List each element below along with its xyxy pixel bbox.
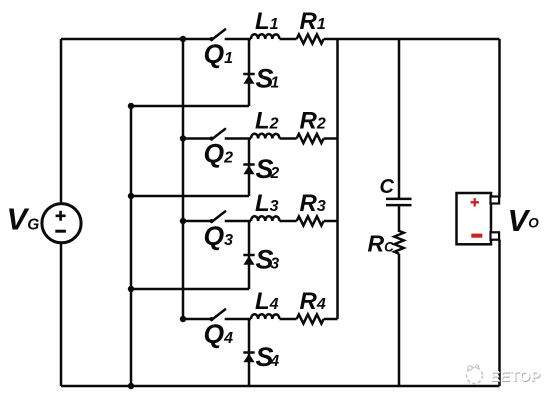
diode S4 — [243, 351, 254, 354]
wire resistor R2 to right bus — [324, 137, 338, 140]
node return 3 at left bus — [128, 286, 134, 292]
wire phase 3 from bus to switch — [183, 220, 212, 223]
wire phase 2 from bus to switch — [183, 137, 212, 140]
switch Q3 blade — [212, 211, 226, 222]
node return 2 at left bus — [128, 193, 134, 199]
inductor L4 — [251, 314, 279, 319]
resistor R2 — [297, 134, 324, 143]
wire switch to inductor L1 — [225, 38, 251, 41]
node phase 2 at main bus — [180, 135, 186, 141]
source VG plus sign — [56, 211, 66, 221]
switch Q4 blade — [212, 309, 226, 320]
wire RC to bottom rail — [398, 254, 401, 386]
load VO bottom tab — [491, 232, 500, 239]
wire bottom rail — [61, 385, 500, 388]
wire right collector bus — [336, 39, 339, 319]
svg-text:R3: R3 — [300, 190, 326, 217]
load VO plus sign — [471, 198, 479, 206]
svg-text:R1: R1 — [300, 8, 326, 35]
wire main switch bus — [182, 39, 185, 319]
diode S3 branch wire — [248, 221, 251, 289]
wire VO branch bottom — [498, 240, 501, 386]
inductor L1 — [251, 34, 279, 39]
wire left edge and source branch — [60, 39, 63, 386]
wire resistor R4 to right bus — [324, 318, 338, 321]
svg-text:R4: R4 — [300, 288, 326, 315]
svg-text:S3: S3 — [256, 245, 280, 275]
diode S2 — [243, 163, 254, 166]
wire capacitor to RC — [398, 206, 401, 232]
wire switch to inductor L4 — [225, 318, 251, 321]
inductor L2 — [251, 134, 279, 139]
svg-text:VO: VO — [508, 203, 540, 238]
load VO box — [457, 193, 492, 244]
resistor RC — [394, 231, 403, 254]
svg-text:Q2: Q2 — [204, 139, 234, 169]
svg-text:S2: S2 — [256, 154, 280, 184]
svg-text:S1: S1 — [256, 64, 280, 94]
wire resistor R3 to right bus — [324, 220, 338, 223]
resistor R3 — [297, 216, 324, 225]
svg-text:RC: RC — [368, 231, 395, 257]
resistor R4 — [297, 314, 324, 323]
load VO top tab — [491, 197, 500, 204]
svg-text:Q1: Q1 — [204, 39, 234, 69]
wire resistor R1 to right bus — [324, 38, 500, 41]
wire VO branch top — [498, 39, 501, 198]
wire return line phase 3 — [131, 288, 249, 291]
wire inductor to resistor R1 — [280, 38, 297, 41]
svg-text:L4: L4 — [255, 288, 279, 315]
svg-text:C: C — [380, 176, 395, 198]
inductor L3 — [251, 216, 279, 221]
wire switch to inductor L3 — [225, 220, 251, 223]
svg-text:Q4: Q4 — [204, 319, 234, 349]
svg-text:L2: L2 — [255, 108, 279, 135]
node left bus at bottom rail — [128, 383, 134, 389]
watermark logo circle — [467, 365, 483, 384]
wire left return bus — [130, 106, 133, 386]
wire return line phase 1 — [131, 105, 249, 108]
wire top horizontal rail — [61, 38, 212, 41]
wire return line phase 2 — [131, 195, 249, 198]
source VG circle — [42, 204, 81, 243]
svg-text:R2: R2 — [300, 108, 326, 135]
node phase 4 at main bus — [180, 316, 186, 322]
wire capacitor branch top — [398, 39, 401, 198]
diode S3 — [243, 254, 254, 257]
node on top rail at main bus — [180, 36, 186, 42]
load VO minus sign — [471, 234, 482, 238]
wire phase 4 from bus to switch — [183, 318, 212, 321]
diode S4 branch wire — [248, 319, 251, 386]
svg-text:Q3: Q3 — [204, 221, 234, 251]
node phase 3 at main bus — [180, 218, 186, 224]
wire inductor to resistor R4 — [280, 318, 297, 321]
diode S1 — [243, 73, 254, 76]
svg-text:EETOP: EETOP — [490, 369, 540, 385]
wire inductor to resistor R3 — [280, 220, 297, 223]
resistor R1 — [297, 34, 324, 43]
wire switch to inductor L2 — [225, 137, 251, 140]
svg-text:S4: S4 — [256, 342, 280, 372]
capacitor C — [386, 199, 412, 205]
watermark EETOP text — [490, 369, 541, 386]
diode S2 branch wire — [248, 139, 251, 197]
switch Q1 blade — [212, 29, 226, 40]
diode S1 branch wire — [248, 39, 251, 106]
wire inductor to resistor R2 — [280, 137, 297, 140]
svg-text:VG: VG — [7, 202, 40, 237]
source VG minus sign — [55, 230, 66, 233]
svg-text:L3: L3 — [255, 190, 279, 217]
svg-text:L1: L1 — [255, 8, 279, 35]
node return 1 at left bus — [128, 103, 134, 109]
switch Q2 blade — [212, 129, 226, 140]
